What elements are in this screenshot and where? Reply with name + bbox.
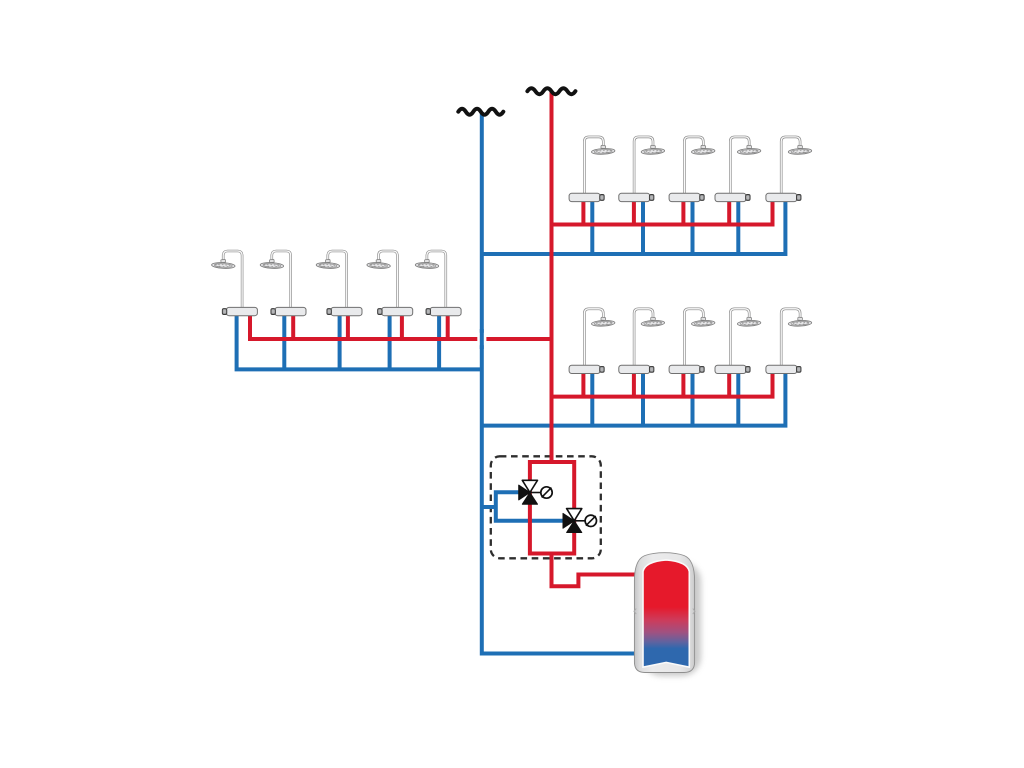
cold feed into mixing valves: [482, 505, 497, 509]
shower S10: [766, 309, 812, 374]
shower S15 (mirrored): [415, 251, 461, 316]
tank inner hot/cold gradient: [643, 560, 689, 667]
left group hot manifold (gap at cold riser) + first drop: [250, 311, 478, 339]
wire: hot drop, shower S14: [400, 311, 404, 339]
wire: cold drop, shower S12: [282, 311, 286, 369]
wire: hot drop, shower S8: [681, 370, 685, 397]
mid-right group cold manifold + last drop: [482, 370, 786, 426]
shower S11 (mirrored): [211, 251, 257, 316]
wire: cold drop, shower S9: [736, 370, 740, 426]
mixing valve MV1: [519, 480, 553, 504]
shower S7: [619, 309, 665, 374]
shower S14 (mirrored): [367, 251, 413, 316]
wire: hot drop, shower S15: [446, 311, 450, 339]
wire: hot drop, shower S2: [632, 198, 636, 225]
shower S6: [569, 309, 615, 374]
wire: hot drop, shower S3: [681, 198, 685, 225]
wire: cold drop, shower S14: [388, 311, 392, 369]
shower S8: [669, 309, 715, 374]
wire: cold drop, shower S13: [338, 311, 342, 369]
tank weld notches: [634, 609, 695, 615]
wire: hot drop, shower S1: [581, 198, 585, 225]
shower S1: [569, 137, 615, 202]
break squiggle, hot main: [527, 88, 575, 94]
mixing valve MV2: [563, 509, 597, 533]
storage tank T1: [634, 553, 701, 676]
hot outlet to tank: [552, 554, 638, 587]
wire: hot drop, shower S7: [632, 370, 636, 397]
wire: cold drop, shower S6: [590, 370, 594, 426]
wire: cold drop, shower S7: [641, 370, 645, 426]
wire: cold drop, shower S4: [736, 198, 740, 254]
shower S4: [715, 137, 761, 202]
dashed mixing-unit box: [491, 456, 601, 558]
mid-right group hot manifold + last drop: [552, 370, 773, 397]
tank outer shell: [634, 553, 694, 673]
wire: hot drop, shower S4: [727, 198, 731, 225]
cold riser crossing casing over left hot manifold: [477, 333, 486, 345]
hot riser: [550, 91, 554, 462]
shower S13 (mirrored): [316, 251, 362, 316]
shower S2: [619, 137, 665, 202]
top-right group hot manifold + last drop: [552, 198, 773, 225]
valve loop: [530, 462, 574, 554]
shower S9: [715, 309, 761, 374]
wire: cold drop, shower S8: [691, 370, 695, 426]
wire: cold drop, shower S3: [691, 198, 695, 254]
wire: cold drop, shower S1: [590, 198, 594, 254]
wire: hot drop, shower S9: [727, 370, 731, 397]
left group cold manifold + first drop: [237, 311, 482, 369]
wire: cold drop, shower S15: [437, 311, 441, 369]
cold riser with run to tank: [482, 112, 637, 654]
shower S5: [766, 137, 812, 202]
shower S12 (mirrored): [260, 251, 306, 316]
break squiggle, cold main: [458, 109, 503, 115]
tank shadow: [642, 562, 701, 676]
shower S3: [669, 137, 715, 202]
wire: hot drop, shower S13: [346, 311, 350, 339]
top-right group cold manifold + last drop: [482, 198, 786, 254]
wire: hot drop, shower S12: [291, 311, 295, 339]
wire: cold drop, shower S2: [641, 198, 645, 254]
wire: hot drop, shower S6: [581, 370, 585, 397]
